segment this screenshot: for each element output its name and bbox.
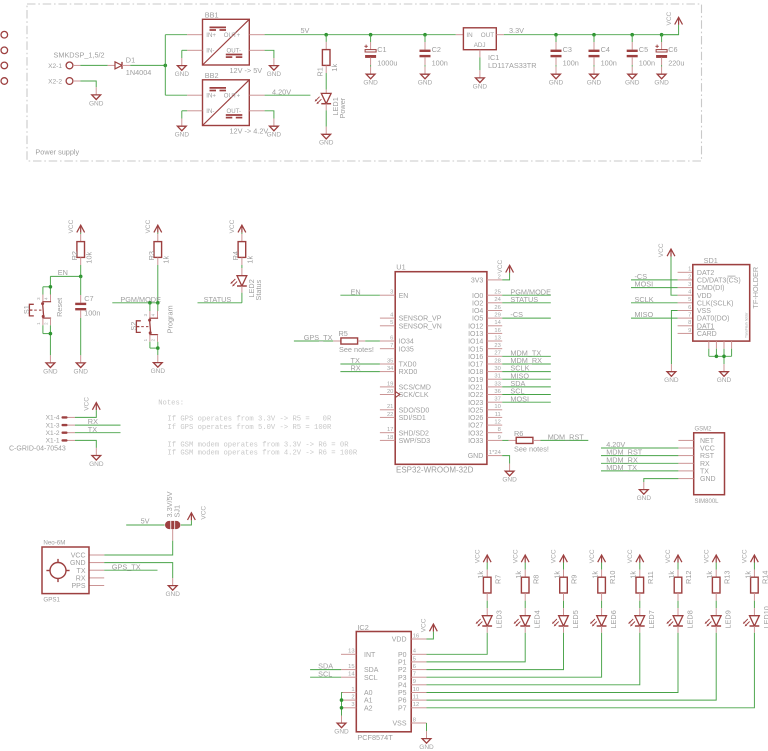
svg-text:P1: P1: [398, 660, 407, 667]
wire R2 to EN node: [80, 257, 82, 276]
svg-text:OUT-: OUT-: [227, 48, 242, 55]
svg-text:10k: 10k: [84, 251, 93, 263]
pin 5 SENSOR_VN of U1: [380, 320, 442, 330]
svg-text:1: 1: [36, 322, 41, 325]
svg-text:13: 13: [494, 335, 500, 341]
net SCL wire at U1: [502, 387, 551, 396]
net STATUS wire at U1: [502, 295, 551, 304]
svg-text:STATUS: STATUS: [204, 295, 232, 304]
svg-text:IO21: IO21: [468, 385, 483, 392]
svg-text:ADJ: ADJ: [474, 42, 486, 49]
svg-text:8: 8: [413, 717, 416, 723]
svg-text:X1-1: X1-1: [46, 438, 60, 445]
connector pin X1-4: [46, 415, 75, 422]
svg-text:VCC: VCC: [551, 549, 558, 563]
svg-text:D1: D1: [126, 55, 135, 64]
dc-dc converter BB1 12V to 5V: [203, 11, 263, 75]
svg-text:RX: RX: [700, 461, 710, 468]
pin 21 SDO/SD0 of U1: [380, 404, 430, 414]
junction at A1: [340, 698, 344, 702]
svg-text:ESP32-WROOM-32D: ESP32-WROOM-32D: [396, 465, 474, 474]
svg-text:100n: 100n: [601, 59, 617, 68]
svg-text:34: 34: [387, 366, 394, 372]
connector pin X2-2: [48, 78, 80, 86]
svg-text:VCC: VCC: [627, 549, 634, 563]
svg-text:VCC: VCC: [229, 219, 236, 233]
ic U1 ESP32-WROOM-32D: [395, 263, 487, 475]
wire R13 to LED9: [715, 593, 717, 616]
svg-text:4: 4: [390, 313, 394, 319]
svg-text:SDA: SDA: [364, 667, 379, 674]
svg-text:GND: GND: [502, 477, 517, 484]
svg-text:P2: P2: [398, 667, 407, 674]
svg-text:33: 33: [494, 381, 500, 387]
svg-text:SD1: SD1: [704, 256, 718, 265]
net STATUS label left: [198, 286, 242, 304]
net SDA wire at U1: [502, 379, 551, 388]
junction PGM/MODE at S2 pin3: [148, 301, 152, 305]
wire R5 to U1 IO34: [365, 340, 380, 342]
wire BB1 IN- to GND: [182, 50, 203, 58]
ground under SD1: [717, 364, 732, 384]
svg-text:1*24: 1*24: [489, 450, 502, 456]
pin 4 SENSOR_VP of U1: [380, 313, 442, 323]
svg-text:GND: GND: [700, 476, 716, 483]
svg-text:GND: GND: [319, 140, 334, 147]
pin 31 IO19 of U1: [468, 374, 502, 384]
ground under S1: [43, 355, 58, 375]
junction SD1 shield a: [715, 355, 719, 359]
wire LED8 to IC2 P5: [427, 626, 679, 693]
svg-text:2: 2: [688, 274, 691, 280]
ground under IC2 right: [419, 731, 434, 751]
svg-text:7: 7: [390, 343, 393, 349]
led LED4: [514, 610, 542, 628]
pin 33 IO21 of U1: [468, 381, 502, 391]
svg-text:RXD0: RXD0: [399, 369, 418, 376]
svg-text:31: 31: [494, 374, 500, 380]
svg-text:11: 11: [495, 412, 501, 418]
svg-text:12: 12: [413, 702, 419, 708]
pin 9 IO33 of U1: [468, 435, 502, 445]
pin 3 A2 of IC2: [341, 702, 373, 712]
svg-text:3: 3: [143, 313, 148, 316]
svg-text:IO2: IO2: [472, 300, 483, 307]
svg-text:36: 36: [494, 389, 500, 395]
svg-text:PPS: PPS: [71, 583, 85, 590]
svg-text:18: 18: [387, 435, 393, 441]
net MOSI wire at U1: [502, 394, 551, 403]
svg-text:R6: R6: [514, 429, 523, 438]
svg-text:16: 16: [413, 633, 419, 639]
svg-text:TX: TX: [88, 425, 97, 434]
gsm module GSM2 SIM800L: [694, 427, 725, 505]
svg-text:LD117AS33TR: LD117AS33TR: [488, 61, 537, 70]
svg-text:LED8: LED8: [685, 610, 694, 628]
pin 12 P7 of IC2: [398, 702, 427, 712]
svg-text:OUT-: OUT-: [227, 108, 242, 115]
svg-text:P5: P5: [398, 690, 407, 697]
ground under C6: [654, 67, 669, 87]
svg-text:GND: GND: [473, 83, 488, 90]
wire X1-1 to GND: [75, 440, 96, 448]
pin 36 IO22 of U1: [468, 389, 502, 399]
net MISO wire at U1: [502, 371, 551, 380]
svg-text:37: 37: [494, 397, 500, 403]
svg-text:R11: R11: [646, 571, 655, 584]
svg-text:10: 10: [494, 404, 500, 410]
junction 3.3V at C4: [592, 33, 596, 37]
svg-text:12V -> 4.2V: 12V -> 4.2V: [230, 126, 269, 135]
svg-text:STATUS: STATUS: [510, 295, 538, 304]
svg-text:IN+: IN+: [206, 32, 216, 39]
net SCLK wire at SD1: [631, 295, 693, 304]
wire PGM/MODE to S2: [150, 303, 158, 311]
svg-text:9: 9: [688, 328, 691, 334]
svg-text:26: 26: [494, 305, 500, 311]
svg-text:TX: TX: [77, 568, 86, 575]
pin 34 RXD0 of U1: [380, 366, 417, 376]
svg-text:VCC: VCC: [665, 549, 672, 563]
svg-text:IO0: IO0: [472, 293, 483, 300]
wire LED3 to IC2 P0: [427, 626, 488, 654]
wire D1 to input node: [130, 64, 165, 66]
svg-text:12: 12: [494, 420, 500, 426]
svg-text:4: 4: [688, 290, 692, 296]
svg-text:VCC: VCC: [497, 259, 504, 273]
pin 7 IO35 of U1: [380, 343, 414, 353]
svg-text:IO5: IO5: [472, 316, 483, 323]
ground under BB2 right: [267, 119, 282, 139]
ground under GPS: [165, 578, 180, 598]
svg-text:Reset: Reset: [55, 298, 64, 317]
svg-text:INT: INT: [364, 652, 376, 659]
junction EN at R2/C7: [79, 275, 83, 279]
svg-text:EN: EN: [58, 268, 68, 277]
regulator IC1 LD117AS33TR: [456, 28, 537, 70]
power symbol VCC right of SJ1: [188, 506, 208, 521]
svg-text:X2-2: X2-2: [48, 78, 62, 85]
wire X1-4 to VCC: [75, 410, 96, 417]
svg-text:S2: S2: [129, 322, 138, 331]
svg-text:C5: C5: [639, 45, 648, 54]
svg-text:GND: GND: [549, 80, 564, 87]
svg-text:GND: GND: [151, 368, 166, 375]
svg-text:1: 1: [351, 687, 354, 693]
pin RX stub of GPS: [89, 577, 104, 579]
net EN label: [50, 268, 80, 277]
svg-text:6: 6: [688, 305, 691, 311]
svg-text:If GPS operates from 3.3V -> R: If GPS operates from 3.3V -> R5 = 0R: [167, 416, 332, 424]
svg-text:3.3V: 3.3V: [509, 26, 524, 35]
svg-text:P7: P7: [398, 705, 407, 712]
power symbol VCC above R4: [229, 219, 246, 233]
net MISO wire at SD1: [631, 310, 693, 319]
junction 3.3V at C5: [630, 33, 634, 37]
pin 1 A0 of IC2: [341, 687, 373, 697]
wire SD1 shield pins to ground: [709, 341, 732, 364]
capacitor C3 100n: [551, 35, 579, 68]
wire BB2 OUT- to GND: [249, 111, 274, 119]
wire R7 to LED3: [486, 593, 488, 616]
pin 16 VDD of IC2: [392, 633, 427, 643]
svg-text:GND: GND: [165, 591, 180, 598]
capacitor C1 1000u: [364, 35, 397, 68]
wire SJ1 to GPS VCC: [89, 529, 173, 555]
power symbol VCC above R11: [627, 549, 644, 563]
pin 26 IO4 of U1: [472, 305, 502, 315]
svg-text:TXD0: TXD0: [399, 362, 417, 369]
svg-text:IO12: IO12: [468, 323, 483, 330]
pin 8 VSS of IC2: [392, 717, 426, 727]
svg-text:IO32: IO32: [468, 430, 483, 437]
svg-text:SENSOR_VN: SENSOR_VN: [399, 323, 442, 330]
svg-text:OUT+: OUT+: [224, 32, 241, 39]
svg-text:X1-3: X1-3: [46, 422, 60, 429]
pin DAT1 stub of SD1: [678, 325, 693, 327]
net SCLK wire at U1: [502, 364, 551, 373]
wire R9 to LED5: [563, 593, 565, 616]
svg-text:If GSM modem operates from 4.2: If GSM modem operates from 4.2V -> R6 = …: [167, 449, 357, 457]
resistor R7 1k: [476, 563, 502, 594]
svg-text:BB2: BB2: [205, 71, 219, 80]
svg-text:RX: RX: [76, 576, 86, 583]
wire LED10 to IC2 P7: [427, 626, 755, 708]
svg-text:4: 4: [44, 297, 49, 300]
pin 29 IO5 of U1: [472, 313, 502, 323]
resistor R10 1k: [591, 563, 617, 594]
svg-text:2: 2: [151, 338, 156, 341]
connector pin X2-1: [48, 62, 80, 70]
svg-text:VCC: VCC: [589, 549, 596, 563]
notes text block: [158, 399, 358, 457]
svg-text:P3: P3: [398, 675, 407, 682]
connector X2 SMKDSP_1,5/2: [54, 50, 105, 59]
svg-text:GND: GND: [363, 80, 378, 87]
ground under LED1: [319, 127, 334, 147]
mounting hole H2: [1, 47, 8, 54]
resistor R14 1k: [743, 563, 768, 594]
svg-text:LED9: LED9: [724, 610, 733, 628]
svg-text:1k: 1k: [591, 571, 600, 579]
svg-text:C1: C1: [377, 45, 386, 54]
junction 5V at C1: [369, 33, 373, 37]
wire IC2 VDD to VCC: [427, 632, 434, 639]
svg-text:X1-2: X1-2: [46, 430, 60, 437]
svg-text:VCC: VCC: [658, 243, 665, 257]
svg-text:8: 8: [498, 427, 501, 433]
net GPS_TX wire: [294, 333, 333, 342]
svg-text:RX: RX: [351, 364, 361, 373]
svg-text:Notes:: Notes:: [158, 399, 184, 407]
svg-text:C2: C2: [432, 45, 441, 54]
svg-text:GND: GND: [43, 368, 58, 375]
wire BB1 OUT- to GND: [249, 50, 274, 58]
power symbol VCC above R12: [665, 549, 682, 563]
svg-text:See notes!: See notes!: [514, 445, 549, 454]
svg-text:14: 14: [348, 672, 355, 678]
svg-text:EN: EN: [399, 293, 409, 300]
svg-text:1k: 1k: [705, 571, 714, 579]
svg-text:25: 25: [494, 290, 500, 296]
svg-text:R14: R14: [761, 571, 768, 584]
net -CS wire at U1: [502, 310, 551, 319]
svg-text:IO15: IO15: [468, 346, 483, 353]
svg-text:SJ1: SJ1: [172, 505, 181, 518]
svg-text:TransFlash holder: TransFlash holder: [745, 311, 749, 338]
wire X2-1 to D1 anode: [80, 64, 107, 66]
svg-text:C6: C6: [668, 45, 677, 54]
svg-text:35: 35: [387, 358, 393, 364]
mounting hole H3: [1, 62, 8, 69]
switch S2 Program: [129, 305, 175, 341]
wire input node to BB1/BB2 inputs: [165, 35, 202, 95]
svg-text:X1-4: X1-4: [46, 415, 60, 422]
ground under IC1: [473, 70, 488, 90]
wire IC2 address pins to ground: [342, 693, 343, 716]
svg-text:R10: R10: [608, 571, 617, 584]
svg-text:IO23: IO23: [468, 400, 483, 407]
power symbol VCC above R8: [512, 549, 529, 563]
svg-text:1k: 1k: [330, 64, 339, 72]
svg-text:LED7: LED7: [647, 610, 656, 628]
svg-text:GSM2: GSM2: [695, 427, 713, 433]
svg-text:VCC: VCC: [703, 549, 710, 563]
svg-text:27: 27: [494, 351, 500, 357]
wire GSM2 GND to ground: [644, 479, 694, 482]
svg-text:14: 14: [494, 320, 501, 326]
wire 3.3V rail: [504, 26, 679, 35]
ground under X2-2: [89, 87, 104, 107]
pin 6 IO34 of U1: [380, 335, 414, 345]
svg-text:16: 16: [494, 328, 500, 334]
svg-text:IN+: IN+: [206, 93, 216, 100]
svg-text:SCK/CLK: SCK/CLK: [399, 392, 429, 399]
wire U1 GND pin to ground: [502, 456, 509, 464]
svg-text:GND: GND: [334, 729, 349, 736]
wire IC2 VSS to ground: [426, 723, 428, 731]
svg-text:VCC: VCC: [474, 549, 481, 563]
svg-text:LED4: LED4: [533, 610, 542, 628]
wire R10 to LED6: [601, 593, 603, 616]
power symbol VCC above IC2: [421, 618, 438, 632]
switch S1 Reset: [22, 295, 64, 326]
svg-text:SCL: SCL: [318, 669, 332, 678]
led LED5: [552, 610, 580, 628]
power symbol VCC above X1: [84, 397, 101, 411]
gps module GPS1 Neo-6M: [42, 540, 89, 604]
svg-text:19: 19: [387, 381, 393, 387]
net GPS_TX wire at GPS: [89, 562, 158, 571]
svg-text:VCC: VCC: [201, 506, 208, 520]
svg-text:IO13: IO13: [468, 331, 483, 338]
ground under BB1 left: [175, 58, 190, 78]
svg-text:R2: R2: [70, 251, 79, 260]
capacitor C2 100n: [420, 35, 448, 68]
svg-text:R8: R8: [531, 575, 540, 584]
svg-text:A0: A0: [364, 690, 373, 697]
svg-text:VCC: VCC: [68, 219, 75, 233]
ground under IC2 left: [334, 716, 349, 736]
svg-text:20: 20: [387, 389, 393, 395]
svg-text:IO26: IO26: [468, 415, 483, 422]
pin 20 SCK/CLK of U1: [380, 389, 429, 399]
svg-text:CLK(SCLK): CLK(SCLK): [697, 300, 734, 307]
svg-text:3: 3: [36, 297, 41, 300]
led LED6: [590, 610, 618, 628]
svg-text:R4: R4: [231, 251, 240, 260]
power symbol VCC above U1: [497, 259, 514, 273]
pin 14 IO12 of U1: [468, 320, 502, 330]
junction 5V at C2: [423, 33, 427, 37]
svg-text:GND: GND: [70, 560, 86, 567]
wire U1 IO33 to R6: [502, 439, 508, 441]
resistor R2 10k: [70, 233, 94, 264]
svg-text:8: 8: [688, 320, 691, 326]
svg-text:2: 2: [498, 274, 501, 280]
svg-text:5: 5: [688, 297, 691, 303]
svg-text:3V3: 3V3: [471, 278, 484, 285]
net MOSI wire at SD1: [631, 280, 693, 289]
svg-text:23: 23: [494, 343, 500, 349]
led LED10: [743, 606, 768, 628]
net RX wire: [340, 364, 380, 373]
led LED2 Status: [230, 276, 263, 301]
connector pin X1-1: [46, 438, 75, 445]
svg-text:IO18: IO18: [468, 369, 483, 376]
pin 6 P2 of IC2: [398, 664, 427, 674]
svg-text:GPS_TX: GPS_TX: [304, 333, 333, 342]
svg-text:SHD/SD2: SHD/SD2: [399, 430, 429, 437]
ground under C1: [363, 67, 378, 87]
svg-text:TX: TX: [700, 469, 709, 476]
wire R12 to LED8: [677, 593, 679, 616]
pin 12 IO27 of U1: [468, 420, 502, 430]
svg-text:12V -> 5V: 12V -> 5V: [230, 66, 263, 75]
svg-text:100n: 100n: [639, 59, 655, 68]
net EN wire to U1: [340, 287, 380, 296]
net -CS wire at SD1: [631, 272, 693, 281]
power symbol VCC above R3: [145, 219, 162, 233]
svg-text:P6: P6: [398, 698, 407, 705]
svg-text:15: 15: [348, 664, 354, 670]
wire IC1 ADJ to GND: [479, 57, 481, 70]
wire R3 to PGM/MODE node: [157, 257, 159, 302]
wire X2-2 to GND: [80, 81, 96, 87]
svg-text:GND: GND: [637, 495, 652, 502]
svg-text:GND: GND: [468, 453, 484, 460]
ground under BB2 left: [175, 119, 190, 139]
svg-text:IO34: IO34: [399, 339, 414, 346]
svg-text:GND: GND: [664, 377, 679, 384]
svg-text:7: 7: [413, 672, 416, 678]
svg-text:C3: C3: [563, 45, 572, 54]
pin 9 P4 of IC2: [398, 679, 427, 689]
wire S1 to GND: [43, 325, 51, 355]
svg-text:BB1: BB1: [205, 11, 219, 20]
wire LED5 to IC2 P2: [427, 626, 564, 670]
svg-text:LED10: LED10: [762, 606, 768, 628]
net MDM_RST wire at R6: [541, 433, 589, 442]
svg-text:SMKDSP_1,5/2: SMKDSP_1,5/2: [54, 50, 105, 59]
wire LED1 to GND: [325, 104, 327, 127]
svg-text:1000u: 1000u: [377, 59, 397, 68]
svg-text:P4: P4: [398, 682, 407, 689]
svg-text:3: 3: [390, 290, 393, 296]
svg-text:GND: GND: [89, 461, 104, 468]
led LED3: [476, 610, 504, 628]
svg-text:GND: GND: [717, 377, 732, 384]
